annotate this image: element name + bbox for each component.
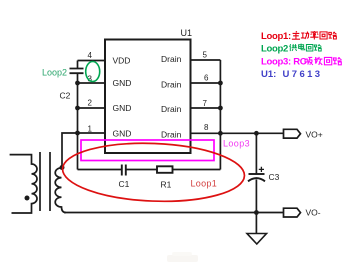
transformer T1 secondary winding <box>55 168 66 213</box>
svg-text:7: 7 <box>203 99 208 108</box>
transformer core line left <box>39 152 41 211</box>
wire bottom output rail VO- <box>64 212 284 214</box>
legend line 2: Loop2 supply loop (green) <box>261 44 321 55</box>
wire snubber segment middle <box>127 169 158 171</box>
capacitor C2 <box>70 69 84 74</box>
wire pin2 stub <box>78 107 106 109</box>
wire pin8 to VO+ terminal <box>191 132 284 134</box>
wire C3 top branch <box>255 133 257 173</box>
svg-text:Drain: Drain <box>161 130 182 140</box>
svg-text:GND: GND <box>113 78 132 88</box>
svg-text:Loop2: Loop2 <box>261 44 288 55</box>
wire pin4 stub <box>78 60 106 62</box>
terminal tag VO- <box>284 208 301 217</box>
wire pin1 to transformer secondary <box>62 133 78 168</box>
svg-text:C1: C1 <box>119 179 130 189</box>
junction dot pin2 <box>75 106 80 111</box>
svg-text:Loop3: RC: Loop3: RC <box>261 56 307 67</box>
junction dot rail/ground <box>254 210 259 215</box>
wire drain bus vertical <box>219 60 221 170</box>
junction dot secondary polarity <box>60 165 65 170</box>
capacitor C3 polarized <box>248 174 265 181</box>
wire snubber segment right <box>173 169 221 171</box>
wire C2 down left rail to snubber <box>77 73 79 169</box>
svg-text:8: 8 <box>204 123 209 132</box>
wire pin1 stub <box>78 132 106 134</box>
annotation magenta rectangle Loop3 <box>81 140 214 161</box>
legend line 3: Loop3 RC snubber loop (magenta) <box>261 56 341 67</box>
junction dot pin1 <box>75 131 80 136</box>
wire ground stub <box>255 213 257 234</box>
svg-text:Drain: Drain <box>161 54 182 64</box>
transformer T1 primary winding <box>10 155 37 213</box>
svg-text:Drain: Drain <box>161 104 182 114</box>
resistor R1 <box>157 166 173 173</box>
wire pin5 stub to drain bus <box>191 59 221 61</box>
svg-text:GND: GND <box>113 103 132 113</box>
svg-text:Loop1:: Loop1: <box>261 31 291 42</box>
wire pin3 stub <box>78 82 106 84</box>
svg-text:GND: GND <box>113 129 132 139</box>
IC U1 body <box>105 40 191 154</box>
svg-text:4: 4 <box>88 51 93 60</box>
svg-text:6: 6 <box>204 74 209 83</box>
svg-text:VO+: VO+ <box>306 130 323 140</box>
svg-text:Loop2: Loop2 <box>42 68 67 78</box>
wire VDD branch down to C2 <box>77 61 79 69</box>
junction dot pin3/C2 <box>75 81 80 86</box>
terminal tag VO+ <box>284 129 301 138</box>
svg-text:5: 5 <box>203 51 208 60</box>
svg-text:2: 2 <box>88 99 93 108</box>
svg-text:Drain: Drain <box>161 80 182 90</box>
transformer primary polarity dot <box>25 196 30 201</box>
C3 plus sign <box>259 167 264 172</box>
svg-text:Loop3: Loop3 <box>223 139 250 149</box>
junction dot C3 top <box>254 131 259 136</box>
junction dot pin6 bus <box>218 81 223 86</box>
ground symbol <box>247 234 267 245</box>
junction dot pin8 bus <box>218 131 223 136</box>
legend line 1: Loop1 main power loop (red) <box>261 31 336 42</box>
junction dot pin7 bus <box>218 106 223 111</box>
svg-text:U7613: U7613 <box>283 69 323 80</box>
annotation red ellipse Loop1 <box>61 140 245 205</box>
svg-text:VDD: VDD <box>113 56 131 66</box>
svg-text:C2: C2 <box>60 91 71 101</box>
wire snubber segment left <box>78 169 122 171</box>
wire pin7 stub <box>191 107 221 109</box>
wire C3 bottom branch <box>255 180 257 213</box>
wire pin6 stub <box>191 82 221 84</box>
svg-text:Loop1: Loop1 <box>191 179 218 189</box>
annotation green ellipse Loop2 <box>86 62 100 82</box>
svg-text:U1:: U1: <box>261 69 276 80</box>
capacitor C1 <box>122 165 126 176</box>
svg-text:VO-: VO- <box>306 208 321 218</box>
transformer core line right <box>49 152 51 211</box>
faint watermark <box>167 252 198 262</box>
svg-text:R1: R1 <box>161 180 172 190</box>
svg-text:C3: C3 <box>269 172 280 182</box>
svg-text:U1: U1 <box>181 28 193 38</box>
